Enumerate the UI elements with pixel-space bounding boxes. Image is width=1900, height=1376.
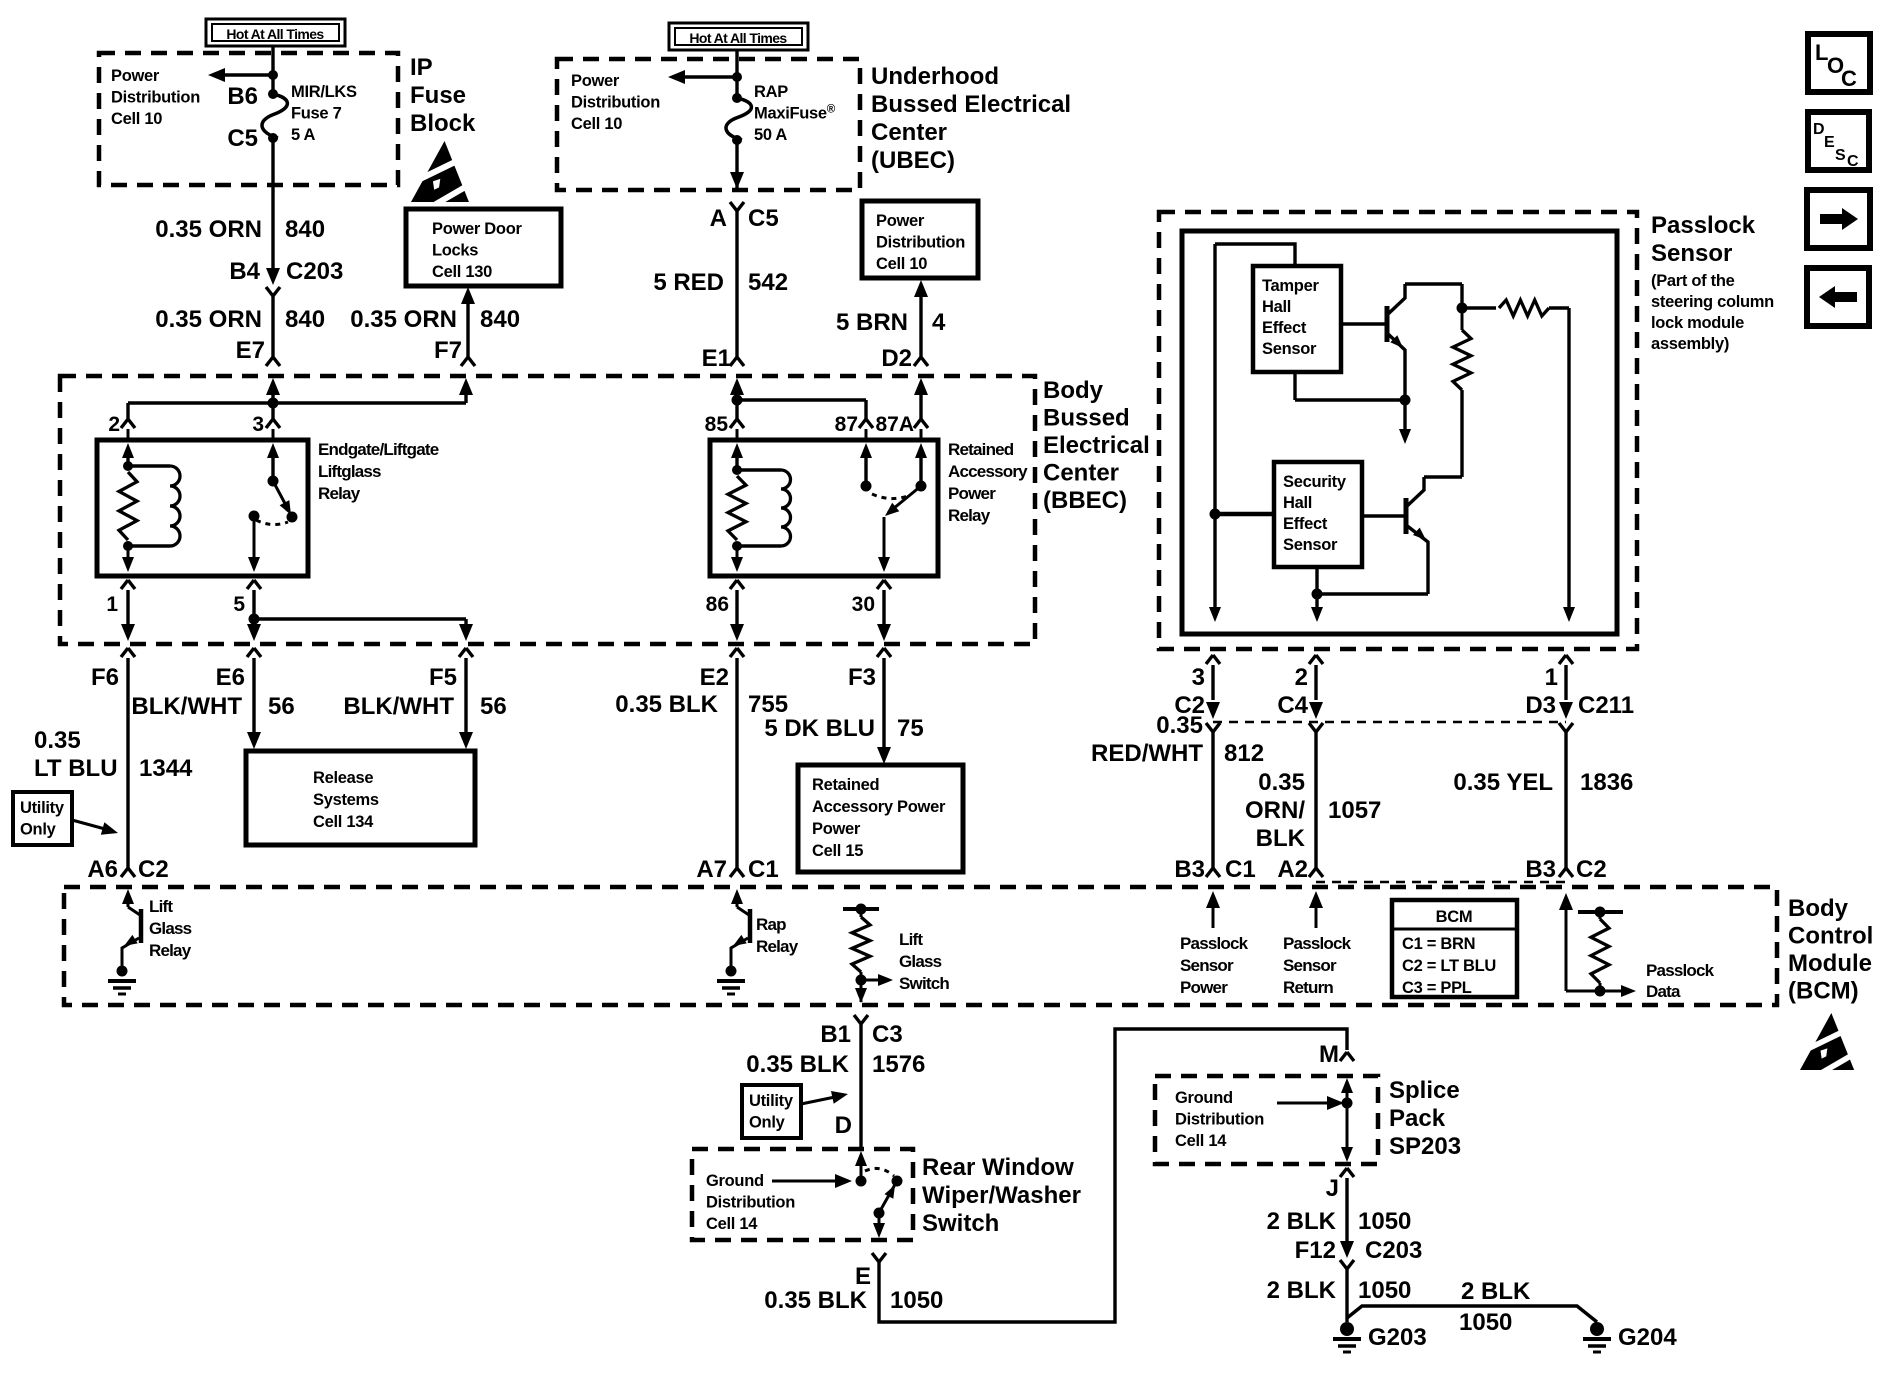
svg-text:Only: Only (749, 1114, 786, 1132)
svg-text:assembly): assembly) (1651, 335, 1729, 353)
relay1 pin5 contact (249, 511, 260, 522)
terminal E1 at BBEC (730, 357, 744, 366)
relay2 switch throw (dashed) (872, 494, 908, 499)
svg-text:C211: C211 (1578, 692, 1634, 719)
relay2 pin85 entry (731, 443, 743, 458)
svg-text:C4: C4 (1277, 692, 1308, 719)
relay2 switch arm (888, 486, 921, 513)
resistor R2 (vertical) (1461, 308, 1464, 330)
svg-text:LT BLU: LT BLU (34, 755, 118, 782)
svg-text:Effect: Effect (1262, 319, 1307, 337)
svg-text:840: 840 (285, 216, 325, 243)
svg-text:S: S (1835, 147, 1846, 164)
connector line C2/C4/C211 (dashed) (1213, 721, 1566, 724)
wire D2 riser in BBEC (919, 390, 922, 419)
wire 840 to Power Door Locks (461, 287, 475, 304)
wire to C2 connector (1211, 665, 1214, 700)
pin 5 terminal (247, 580, 261, 589)
terminal E2 (730, 648, 744, 657)
svg-text:Block: Block (410, 110, 476, 137)
svg-text:Utility: Utility (749, 1092, 794, 1110)
arrow to Power Distribution Cell 10 (215, 73, 273, 76)
svg-text:0.35 ORN: 0.35 ORN (350, 306, 457, 333)
relay2 pin30 wire (883, 517, 886, 568)
svg-text:E1: E1 (702, 345, 731, 372)
svg-text:E: E (1824, 134, 1835, 151)
wire pin5 junction to F5 (252, 590, 255, 619)
svg-text:C1 = BRN: C1 = BRN (1402, 935, 1475, 953)
svg-text:B4: B4 (229, 258, 260, 285)
pin 87A terminal (914, 419, 928, 428)
svg-text:A7: A7 (696, 856, 727, 883)
svg-text:1576: 1576 (872, 1051, 925, 1078)
terminal D2 at BBEC (914, 357, 928, 366)
svg-text:Center: Center (871, 119, 947, 146)
wire pin30 to F3 (882, 590, 885, 629)
F7 riser arrow (464, 390, 467, 403)
svg-text:2: 2 (108, 413, 120, 436)
svg-text:1836: 1836 (1580, 769, 1633, 796)
svg-text:Cell 10: Cell 10 (876, 255, 927, 273)
LOC box (1808, 34, 1870, 92)
svg-text:Glass: Glass (899, 952, 942, 971)
wire 1057 (1314, 732, 1317, 868)
svg-text:Ground: Ground (706, 1172, 764, 1190)
svg-text:Passlock: Passlock (1180, 934, 1249, 953)
svg-text:3: 3 (252, 413, 264, 436)
UBEC dashed box (557, 59, 860, 190)
terminal E7 at BBEC (266, 357, 280, 366)
svg-text:Power: Power (876, 212, 925, 230)
svg-text:Sensor: Sensor (1283, 536, 1338, 554)
svg-text:1: 1 (1545, 664, 1558, 691)
svg-text:Hall: Hall (1262, 298, 1291, 316)
passlock pins 3 2 1 terminals (1206, 655, 1220, 664)
relay1 switch throw (dashed) (256, 520, 288, 525)
svg-text:56: 56 (480, 693, 507, 720)
right rail to pin1 (1567, 308, 1570, 608)
wire 1576 (859, 1024, 862, 1149)
svg-text:SP203: SP203 (1389, 1133, 1461, 1160)
svg-text:1: 1 (106, 593, 118, 616)
BBEC dashed box (60, 376, 1035, 644)
svg-text:IP: IP (410, 54, 433, 81)
svg-text:0.35 ORN: 0.35 ORN (155, 306, 262, 333)
svg-text:Only: Only (20, 821, 57, 839)
Retained Accessory Power Power Cell 15 box (798, 765, 963, 872)
wire E7 into BBEC, junction (266, 378, 280, 395)
svg-text:Release: Release (313, 769, 373, 787)
wire E1 into BBEC, junction to 87 (730, 378, 744, 395)
wire: Hot At All Times to fuse (271, 46, 274, 94)
svg-text:BLK/WHT: BLK/WHT (131, 693, 242, 720)
svg-text:1050: 1050 (1358, 1208, 1411, 1235)
svg-text:Cell 15: Cell 15 (812, 842, 863, 860)
svg-text:F6: F6 (91, 664, 119, 691)
svg-text:0.35 BLK: 0.35 BLK (764, 1287, 867, 1314)
terminal F5 (459, 648, 473, 657)
svg-text:(UBEC): (UBEC) (871, 147, 955, 174)
svg-text:Glass: Glass (149, 919, 192, 938)
svg-text:Hot At All Times: Hot At All Times (689, 30, 787, 46)
passlock sensor return arrow (1309, 891, 1323, 908)
pin 3 terminal (266, 419, 280, 428)
wire 75 (F3) (882, 658, 885, 749)
terminal E6 (247, 648, 261, 657)
svg-text:G204: G204 (1618, 1324, 1677, 1351)
svg-text:1050: 1050 (890, 1287, 943, 1314)
svg-text:Retained: Retained (948, 440, 1014, 459)
relay2 coil resistor (732, 465, 742, 475)
svg-text:MaxiFuse®: MaxiFuse® (754, 104, 836, 123)
svg-text:D2: D2 (881, 345, 912, 372)
relay1 switch pin3 (267, 443, 279, 458)
svg-text:Sensor: Sensor (1180, 956, 1234, 975)
svg-text:MIR/LKS: MIR/LKS (291, 83, 357, 101)
svg-text:5 RED: 5 RED (653, 269, 724, 296)
connector forks (1206, 723, 1220, 732)
svg-text:steering column: steering column (1651, 293, 1774, 311)
svg-text:Bussed Electrical: Bussed Electrical (871, 91, 1071, 118)
wiper switch (855, 1151, 867, 1166)
Hot At All Times label box (left) (206, 19, 345, 46)
pin 87 terminal (859, 419, 873, 428)
wire 1836 (1564, 732, 1567, 868)
svg-text:Bussed: Bussed (1043, 405, 1130, 432)
Rear Window Wiper/Washer Switch dashed box (692, 1149, 913, 1240)
connector B4 / C203 (266, 268, 280, 285)
svg-text:0.35: 0.35 (34, 727, 81, 754)
svg-text:C: C (1841, 66, 1857, 91)
svg-text:5 A: 5 A (291, 126, 316, 144)
svg-text:Cell 14: Cell 14 (1175, 1132, 1227, 1150)
svg-text:Switch: Switch (922, 1210, 999, 1237)
terminal J (1340, 1168, 1354, 1177)
svg-text:Power: Power (571, 72, 620, 90)
svg-text:Effect: Effect (1283, 515, 1328, 533)
svg-text:B1: B1 (820, 1021, 851, 1048)
svg-text:Splice: Splice (1389, 1077, 1460, 1104)
svg-text:2 BLK: 2 BLK (1267, 1277, 1337, 1304)
svg-text:Sensor: Sensor (1283, 956, 1337, 975)
relay1 coil to pin1 (127, 546, 130, 568)
pin 85 terminal (730, 419, 744, 428)
svg-text:Cell 130: Cell 130 (432, 263, 492, 281)
wire 1344 (F6 to A6) (126, 658, 129, 868)
ESD symbol (IP fuse block) (409, 141, 477, 210)
wire BLK/WHT 56 (E6) (252, 658, 255, 734)
Passlock Sensor inner box (1182, 231, 1617, 634)
relay2 coil to pin86 (736, 546, 739, 568)
passlock pin3 internal wire (1215, 244, 1295, 266)
svg-text:Pack: Pack (1389, 1105, 1446, 1132)
Lift Glass Switch resistor (843, 907, 879, 911)
svg-text:D: D (835, 1112, 852, 1139)
connector A / C5 (730, 202, 744, 211)
svg-text:Relay: Relay (318, 484, 361, 503)
svg-text:Body: Body (1043, 377, 1104, 404)
right arrow box (1807, 190, 1870, 248)
IP fuse block dashed box (99, 53, 398, 185)
svg-text:30: 30 (852, 593, 875, 616)
svg-text:F5: F5 (429, 664, 457, 691)
svg-text:840: 840 (285, 306, 325, 333)
pin 2 terminal (121, 419, 135, 428)
svg-text:4: 4 (932, 309, 946, 336)
wire 755 (E2 to A7) (735, 658, 738, 868)
svg-text:B6: B6 (227, 83, 258, 110)
svg-text:Accessory: Accessory (948, 462, 1028, 481)
svg-text:1057: 1057 (1328, 797, 1381, 824)
svg-text:Distribution: Distribution (1175, 1111, 1264, 1129)
svg-text:Security: Security (1283, 473, 1347, 491)
svg-text:1344: 1344 (139, 755, 193, 782)
svg-text:B3: B3 (1174, 856, 1205, 883)
ground G204 (1590, 1322, 1604, 1336)
left arrow box (1807, 268, 1869, 326)
svg-text:Cell 134: Cell 134 (313, 813, 374, 831)
svg-text:C1: C1 (748, 856, 779, 883)
svg-text:Module: Module (1788, 950, 1872, 977)
wire junction to pin2 and F7 riser (128, 401, 466, 404)
wire 840 from IP fuse block (271, 138, 274, 276)
relay1 pin2 entry arrow (122, 443, 134, 458)
svg-text:Distribution: Distribution (111, 89, 200, 107)
Q1 collector rail (1405, 282, 1462, 285)
svg-text:F3: F3 (848, 664, 876, 691)
svg-text:5 DK BLU: 5 DK BLU (764, 715, 875, 742)
svg-text:840: 840 (480, 306, 520, 333)
svg-text:A6: A6 (87, 856, 118, 883)
resistor R1 (horizontal) (1462, 306, 1496, 309)
pin 86 terminal (730, 580, 744, 589)
svg-text:Relay: Relay (756, 937, 799, 956)
Security Hall Effect Sensor box (1274, 462, 1362, 567)
Endgate/Liftgate Liftglass Relay box (97, 440, 308, 576)
wire 4 BRN up to Power Distribution (914, 280, 928, 297)
Rap Relay coil (BCM) (731, 889, 743, 904)
svg-text:Sensor: Sensor (1651, 240, 1732, 267)
connector line A2-C2 (dashed) (1316, 881, 1566, 884)
svg-text:C2 = LT BLU: C2 = LT BLU (1402, 957, 1496, 975)
relay1 coil (128, 464, 170, 467)
wire to C211 connector (1564, 665, 1567, 700)
svg-text:Relay: Relay (149, 941, 192, 960)
wire 2 BLK 1050 to G204 (1347, 1306, 1597, 1322)
wire 840 to E7 (271, 296, 274, 357)
Hot At All Times label box (middle) (669, 23, 808, 50)
svg-text:(Part of the: (Part of the (1651, 272, 1735, 290)
svg-text:Cell 14: Cell 14 (706, 1215, 758, 1233)
svg-text:Distribution: Distribution (706, 1194, 795, 1212)
svg-text:Distribution: Distribution (571, 94, 660, 112)
Lift Glass Relay coil (BCM) (122, 889, 134, 904)
svg-text:Return: Return (1283, 978, 1333, 997)
svg-text:(BCM): (BCM) (1788, 978, 1859, 1005)
relay2 87A contact (915, 443, 927, 458)
svg-text:Passlock: Passlock (1646, 961, 1715, 980)
svg-text:BLK: BLK (1256, 825, 1306, 852)
Tamper Hall Effect Sensor box (1253, 266, 1341, 372)
svg-text:G203: G203 (1368, 1324, 1427, 1351)
svg-text:C5: C5 (748, 205, 779, 232)
terminal B1 / C3 (854, 1015, 868, 1024)
svg-text:Power Door: Power Door (432, 220, 522, 238)
ESD symbol (BCM) (1798, 1013, 1862, 1077)
svg-text:F7: F7 (434, 337, 462, 364)
svg-text:Wiper/Washer: Wiper/Washer (922, 1182, 1081, 1209)
Power Distribution Cell 10 box (BBEC feed) (862, 201, 978, 278)
wire 2 BLK 1050 (1345, 1178, 1348, 1242)
fuse RAP MaxiFuse 50A (732, 93, 742, 103)
transistor Q2 (1362, 514, 1406, 517)
svg-text:A: A (710, 205, 727, 232)
svg-text:86: 86 (706, 593, 729, 616)
svg-text:Cell 10: Cell 10 (111, 110, 162, 128)
tamper emitter junction (1293, 371, 1296, 400)
svg-text:Distribution: Distribution (876, 234, 965, 252)
svg-text:1050: 1050 (1358, 1277, 1411, 1304)
terminal F7 at BBEC (461, 357, 475, 366)
svg-text:D: D (1813, 121, 1825, 138)
svg-text:0.35 YEL: 0.35 YEL (1453, 769, 1553, 796)
svg-text:Underhood: Underhood (871, 63, 999, 90)
svg-text:Fuse 7: Fuse 7 (291, 105, 342, 123)
svg-text:Power: Power (111, 67, 160, 85)
arrow down inside UBEC (735, 140, 738, 188)
svg-text:Hall: Hall (1283, 494, 1312, 512)
svg-text:C3: C3 (872, 1021, 903, 1048)
svg-text:C203: C203 (1365, 1237, 1422, 1264)
terminal F3 (877, 648, 891, 657)
svg-text:Endgate/Liftgate: Endgate/Liftgate (318, 440, 439, 459)
arrow to Power Distribution (UBEC) (675, 75, 737, 78)
svg-text:75: 75 (897, 715, 924, 742)
svg-text:BLK/WHT: BLK/WHT (343, 693, 454, 720)
svg-text:2: 2 (1295, 664, 1308, 691)
svg-text:A2: A2 (1277, 856, 1308, 883)
splice wire (1341, 1078, 1353, 1093)
splice arrow (1277, 1102, 1332, 1105)
svg-text:5: 5 (233, 593, 245, 616)
svg-text:85: 85 (705, 413, 729, 436)
wire to C4 connector (1314, 665, 1317, 700)
svg-text:Lift: Lift (899, 930, 923, 949)
svg-text:M: M (1319, 1041, 1339, 1068)
wire 542 (735, 211, 738, 357)
ground distribution arrow (wiper) (772, 1180, 838, 1183)
svg-text:Sensor: Sensor (1262, 340, 1317, 358)
svg-text:56: 56 (268, 693, 295, 720)
svg-text:Tamper: Tamper (1262, 277, 1319, 295)
svg-text:Retained: Retained (812, 776, 879, 794)
svg-text:Fuse: Fuse (410, 82, 466, 109)
svg-text:lock module: lock module (1651, 314, 1744, 332)
svg-text:542: 542 (748, 269, 788, 296)
wire into UBEC (735, 50, 738, 98)
svg-text:Data: Data (1646, 982, 1681, 1001)
svg-text:Rear Window: Rear Window (922, 1154, 1074, 1181)
wire BLK/WHT 56 (F5) (464, 658, 467, 734)
svg-text:C5: C5 (227, 125, 258, 152)
wire pin86 to E2 (735, 590, 738, 629)
Retained Accessory Power Relay box (710, 440, 938, 576)
terminal F6 (121, 648, 135, 657)
svg-text:Systems: Systems (313, 791, 379, 809)
svg-text:(BBEC): (BBEC) (1043, 487, 1127, 514)
svg-text:BCM: BCM (1436, 908, 1473, 926)
svg-text:Lift: Lift (149, 897, 173, 916)
svg-text:C2: C2 (1576, 856, 1607, 883)
svg-text:1050: 1050 (1459, 1309, 1512, 1336)
svg-text:RED/WHT: RED/WHT (1091, 740, 1203, 767)
Utility Only arrow (wiper) (801, 1097, 835, 1104)
svg-text:Utility: Utility (20, 799, 65, 817)
terminal E (872, 1253, 886, 1262)
svg-text:Passlock: Passlock (1651, 212, 1756, 239)
svg-text:0.35: 0.35 (1258, 769, 1305, 796)
svg-text:755: 755 (748, 691, 788, 718)
svg-text:Rap: Rap (756, 915, 786, 934)
security sensor ground run (1317, 592, 1428, 595)
fuse MIR/LKS Fuse 7 5A (268, 89, 278, 99)
Utility Only box (left) (13, 792, 72, 845)
svg-text:E6: E6 (216, 664, 245, 691)
svg-text:87: 87 (835, 413, 858, 436)
Release Systems Cell 134 box (246, 751, 475, 845)
relay1 switch arm (273, 481, 289, 511)
svg-text:Ground: Ground (1175, 1089, 1233, 1107)
svg-text:F12: F12 (1295, 1237, 1336, 1264)
svg-text:2 BLK: 2 BLK (1461, 1278, 1531, 1305)
svg-text:Accessory Power: Accessory Power (812, 798, 946, 816)
Power Door Locks Cell 130 box (406, 209, 561, 286)
Passlock Sensor outer dashed box (1159, 212, 1637, 649)
svg-text:E2: E2 (700, 664, 729, 691)
passlock pin2 junction to security sensor (1210, 509, 1221, 520)
wire 812 (1211, 732, 1214, 868)
svg-text:Body: Body (1788, 895, 1849, 922)
relay1 coil resistor (123, 461, 133, 471)
svg-text:ORN/: ORN/ (1245, 797, 1305, 824)
svg-text:2 BLK: 2 BLK (1267, 1208, 1337, 1235)
svg-text:0.35 ORN: 0.35 ORN (155, 216, 262, 243)
pin 30 terminal (877, 580, 891, 589)
DESC box (1808, 112, 1869, 170)
svg-text:5 BRN: 5 BRN (836, 309, 908, 336)
svg-text:0.35: 0.35 (1156, 712, 1203, 739)
svg-text:50 A: 50 A (754, 126, 787, 144)
svg-text:Switch: Switch (899, 974, 949, 993)
svg-text:C: C (1847, 153, 1859, 170)
wire 2 BLK 1050 (lower) (1345, 1269, 1348, 1322)
svg-text:Locks: Locks (432, 242, 478, 260)
wire pin1 down to F6 (126, 590, 129, 629)
svg-text:3: 3 (1192, 664, 1205, 691)
relay2 coil (737, 468, 781, 471)
svg-text:87A: 87A (875, 413, 914, 436)
svg-text:D3: D3 (1525, 692, 1556, 719)
svg-text:J: J (1326, 1175, 1339, 1202)
svg-text:Control: Control (1788, 923, 1873, 950)
svg-text:B3: B3 (1525, 856, 1556, 883)
svg-text:Cell 10: Cell 10 (571, 115, 622, 133)
BCM connector table (1392, 900, 1517, 997)
passlock data resistor (1559, 893, 1573, 910)
svg-text:Power: Power (1180, 978, 1228, 997)
svg-text:E: E (855, 1263, 871, 1290)
BCM dashed box (64, 887, 1777, 1005)
